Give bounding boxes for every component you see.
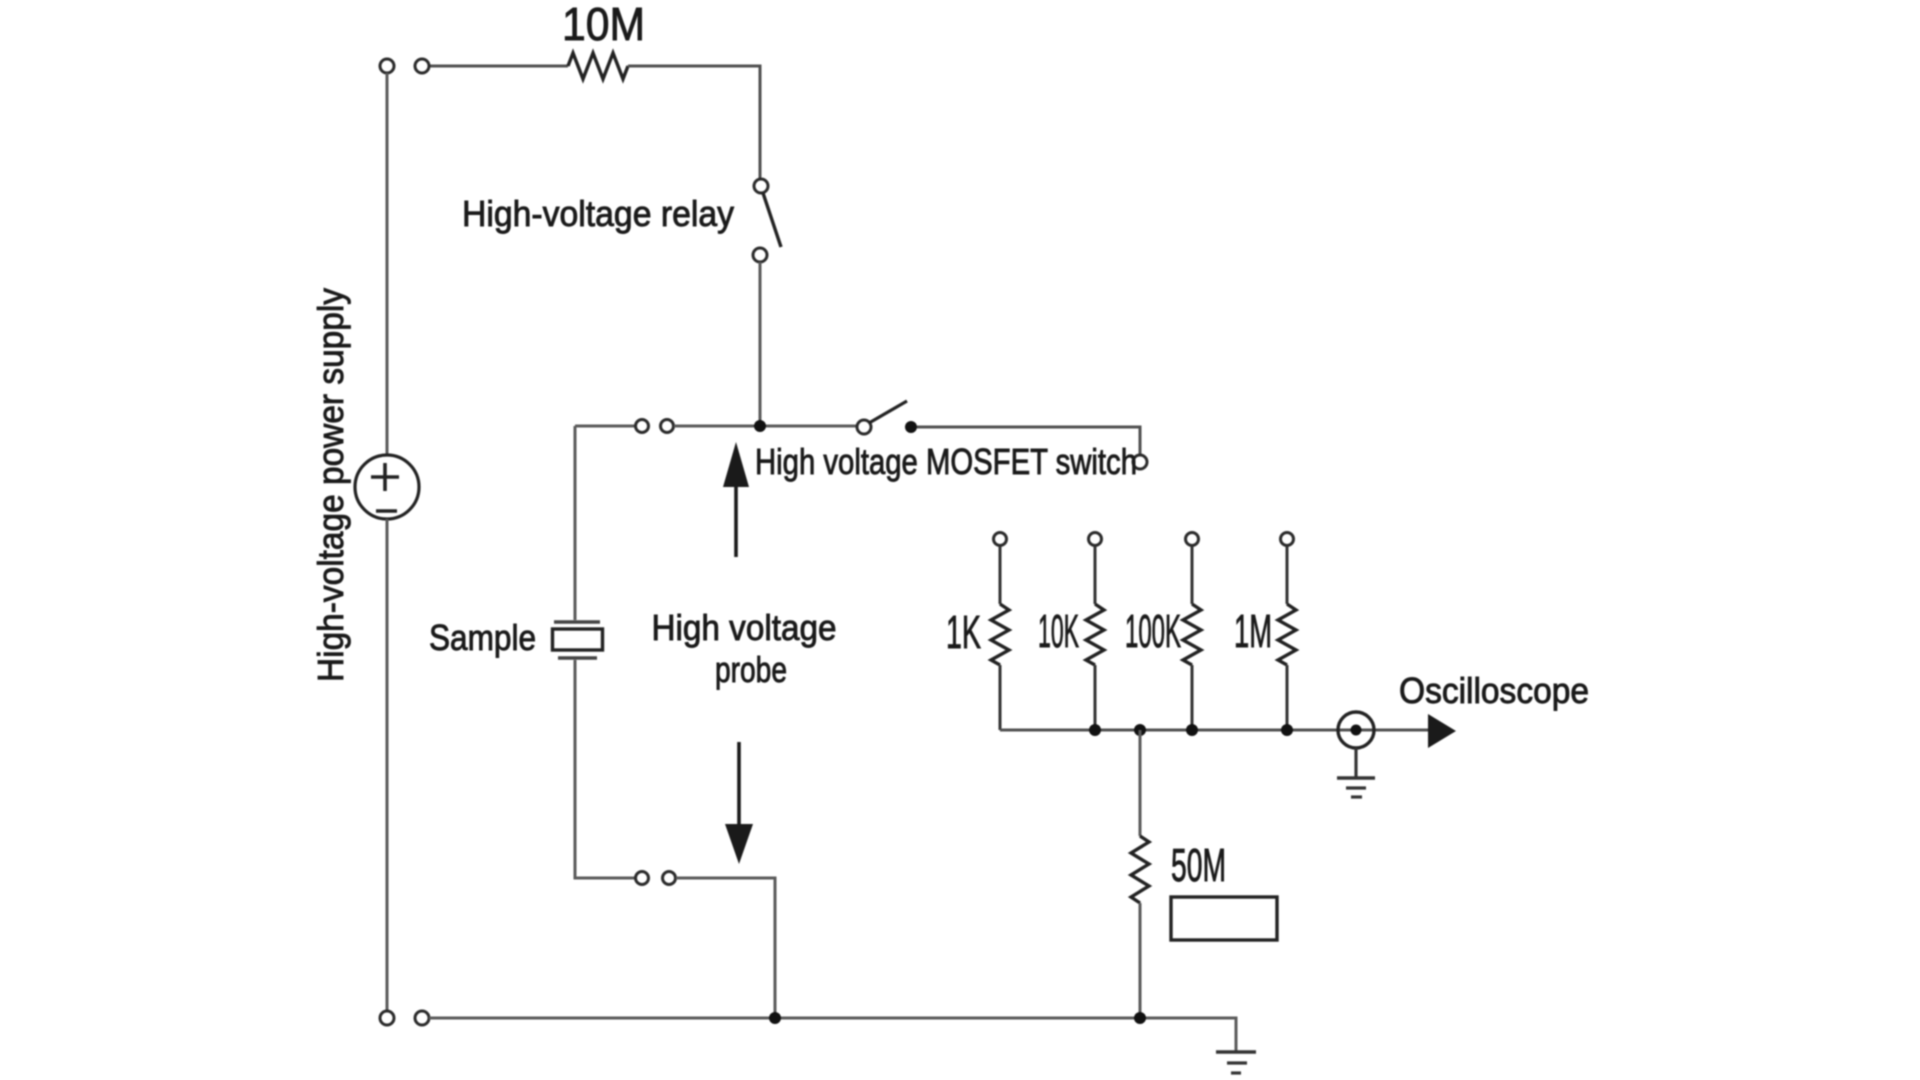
terminal circle MOSFET control <box>1133 455 1147 469</box>
wire MOSFET to right corner <box>917 427 1140 455</box>
svg-text:100K: 100K <box>1125 605 1181 657</box>
ground below connector <box>1354 748 1357 778</box>
wire top right segment and corner down to relay <box>628 66 760 179</box>
svg-text:1K: 1K <box>946 606 981 658</box>
svg-text:probe: probe <box>715 649 787 690</box>
probe connector bottom circles <box>636 872 649 885</box>
node probe return junction <box>769 1012 781 1024</box>
resistor 1K branch <box>994 533 1007 546</box>
MOSFET switch S2 <box>857 420 871 434</box>
callout box <box>1171 897 1277 940</box>
wire bottom bus <box>429 1018 1236 1052</box>
probe connector top circles <box>636 420 649 433</box>
resistor 50M <box>1131 836 1149 903</box>
svg-text:1M: 1M <box>1234 605 1272 657</box>
terminal circle bottom bus start <box>415 1011 429 1025</box>
sample (capacitor/crystal) symbol <box>554 620 600 624</box>
node 50M bottom junction <box>1134 1012 1146 1024</box>
wire sample stem lower <box>575 660 635 878</box>
svg-text:High voltage MOSFET switch: High voltage MOSFET switch <box>755 441 1137 482</box>
terminal circle top wire start <box>415 59 429 73</box>
wire left rail upper <box>386 73 389 455</box>
svg-text:High-voltage power supply: High-voltage power supply <box>310 288 351 682</box>
resistor 10K branch <box>1089 533 1102 546</box>
svg-text:High-voltage relay: High-voltage relay <box>462 193 734 234</box>
arrow to oscilloscope <box>1428 714 1456 748</box>
wire top horizontal left segment <box>429 65 568 68</box>
relay switch S1 <box>754 179 768 193</box>
svg-text:Oscilloscope: Oscilloscope <box>1399 670 1589 711</box>
node 1M junction <box>1281 724 1293 736</box>
svg-text:10K: 10K <box>1038 605 1079 657</box>
ground bottom <box>1216 1050 1256 1054</box>
probe down arrow <box>737 742 741 826</box>
wire left rail lower <box>386 519 389 1011</box>
svg-text:High voltage: High voltage <box>652 607 837 648</box>
oscilloscope connector J1 <box>1338 712 1374 748</box>
wire summing bus to oscilloscope <box>1000 729 1432 732</box>
voltage source V1 <box>355 455 419 519</box>
terminal circle bottom-left rail <box>380 1011 394 1025</box>
probe up arrow <box>734 485 738 557</box>
terminal circle top-left rail <box>380 59 394 73</box>
node mid junction <box>754 420 766 432</box>
svg-text:Sample: Sample <box>429 617 536 658</box>
svg-text:10M: 10M <box>562 0 645 50</box>
wire relay to mid junction <box>759 262 762 426</box>
svg-text:50M: 50M <box>1171 839 1226 891</box>
resistor 100K branch <box>1186 533 1199 546</box>
wire sample stem upper <box>574 426 577 620</box>
wire probe return to bottom bus <box>676 878 775 1018</box>
resistor 10M <box>568 53 628 79</box>
node 50M branch junction <box>1134 724 1146 736</box>
wire mid horizontal from sample stem to connector <box>575 425 635 428</box>
node 10K junction <box>1089 724 1101 736</box>
node 100K junction <box>1186 724 1198 736</box>
wire mid to MOSFET switch <box>674 425 857 428</box>
wire 50M lower lead <box>1139 903 1142 1018</box>
wire 50M upper lead <box>1139 730 1142 836</box>
resistor 1M branch <box>1281 533 1294 546</box>
